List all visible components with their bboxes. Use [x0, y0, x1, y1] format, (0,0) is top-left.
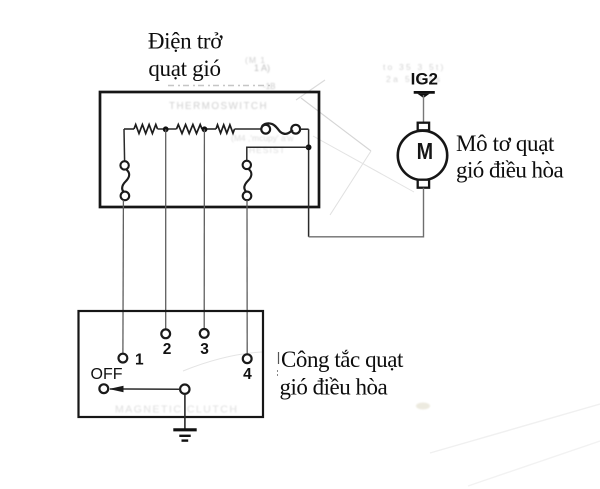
- switch OFF terminal: [99, 384, 108, 393]
- ghost dashed line above resistor box: [168, 85, 272, 87]
- small scan mark before label: [278, 352, 280, 364]
- svg-text:Mô tơ quạt: Mô tơ quạt: [456, 131, 555, 156]
- switch terminal 4: [243, 354, 252, 363]
- ghost diagonal line 1: [301, 98, 371, 151]
- wire: fuse to right elbow: [300, 128, 309, 130]
- wire: coil1 down to switch terminal 1: [122, 200, 125, 353]
- switch box (blower switch): [79, 311, 264, 417]
- ground symbol: [173, 428, 196, 431]
- wire: IG2 to motor: [423, 95, 425, 123]
- wire: junction 3 to coil 2: [247, 147, 309, 160]
- wire: pivot to ground: [184, 394, 186, 429]
- switch terminal 2: [161, 329, 170, 338]
- svg-text:1 A): 1 A): [254, 63, 270, 73]
- motor top terminal: [418, 123, 429, 131]
- resistor R1: [134, 125, 158, 134]
- wire: bus segment R3 to thermal fuse: [235, 128, 262, 130]
- svg-text:-1B: -1B: [263, 82, 275, 91]
- resistor box (blower resistor assembly): [100, 92, 319, 207]
- svg-text:THERMOSWITCH: THERMOSWITCH: [169, 101, 268, 112]
- node junction 3: [306, 144, 312, 150]
- motor bottom terminal: [418, 180, 429, 188]
- ghost streak bottom right 1: [430, 404, 600, 453]
- svg-text:2: 2: [163, 341, 172, 358]
- switch terminal 3: [200, 329, 209, 338]
- wire: bus segment R1 to R2: [158, 128, 177, 130]
- svg-text:HESIST: HESIST: [249, 145, 286, 155]
- thermal fuse left terminal: [261, 125, 270, 134]
- thermal coil 2 S-wave: [244, 169, 251, 192]
- ghost diagonal line 2: [330, 151, 371, 215]
- ghost diagonal line 0: [296, 80, 325, 100]
- thermal fuse wavy element: [262, 123, 293, 133]
- resistor R2: [177, 125, 203, 134]
- ghost curve in switch box: [183, 352, 262, 371]
- svg-text:Điện trở: Điện trở: [148, 29, 223, 54]
- node junction 2: [202, 126, 208, 132]
- svg-text:MAGNETIC CLUTCH: MAGNETIC CLUTCH: [115, 404, 238, 416]
- wire: junction2 down to switch terminal 3: [203, 129, 205, 329]
- ghost streak bottom right 2: [468, 441, 600, 486]
- wire: right vertical inside box: [308, 129, 310, 237]
- ghost diagonal line 3: [313, 136, 414, 192]
- resistor R3: [216, 125, 235, 133]
- svg-text:quạt gió: quạt gió: [148, 56, 220, 81]
- svg-text:4: 4: [243, 366, 252, 383]
- svg-text:gió điều hòa: gió điều hòa: [456, 158, 563, 183]
- svg-text:OFF: OFF: [91, 366, 123, 383]
- thermal coil 2 top circle: [243, 161, 251, 169]
- motor M1 body: [398, 131, 447, 180]
- wire: bus segment R2 to R3: [202, 128, 216, 130]
- thermal coil 1 S-wave: [122, 169, 129, 192]
- switch pivot terminal: [180, 385, 189, 394]
- wire: junction1 down to switch terminal 2: [165, 129, 167, 329]
- svg-text:M: M: [417, 138, 433, 164]
- wire: bus left elbow down to coil 1: [123, 129, 126, 161]
- svg-text:1: 1: [135, 351, 144, 368]
- svg-text:Công tắc quạt: Công tắc quạt: [281, 347, 404, 372]
- thermal coil 1 top circle: [120, 161, 128, 169]
- thermal coil 2 bottom circle: [243, 192, 252, 201]
- switch terminal 1: [119, 354, 128, 363]
- svg-text:3: 3: [200, 341, 209, 358]
- IG2 power tap symbol: [414, 91, 435, 94]
- wire: coil2 down to switch terminal 4: [246, 200, 248, 354]
- wire: motor bottom lead: [309, 188, 424, 237]
- thermal fuse right terminal: [291, 125, 300, 134]
- wire: bus segment before R1: [124, 128, 134, 130]
- thermal coil 1 bottom circle: [121, 192, 130, 201]
- scan smudge mark: [416, 403, 430, 410]
- svg-text:IG2: IG2: [411, 69, 438, 88]
- switch arm wire with arrowhead: [110, 388, 180, 390]
- node junction 1: [163, 126, 169, 132]
- svg-text:gió điều hòa: gió điều hòa: [280, 375, 388, 400]
